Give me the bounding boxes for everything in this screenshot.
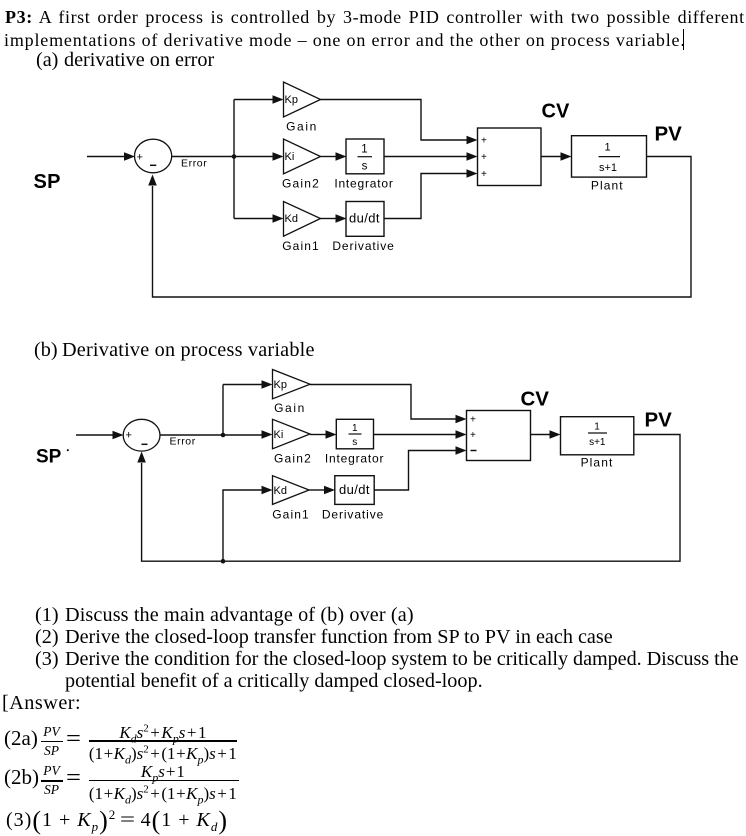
diagram a: plant block [572,136,647,177]
svg-text:Integrator: Integrator [325,451,384,465]
diagram b: Kd to derivative wire [309,489,324,491]
equation (2b) PV/SP bar [41,780,63,781]
diagram b: derivative block [335,476,374,505]
equation (2a) PV/SP numerator [40,725,63,739]
svg-text:1: 1 [594,422,600,433]
diagram a: derivative block [346,202,384,237]
diagram b: arrowhead into sum block input 1 [456,415,467,424]
diagram a: branch to Kd [234,218,273,220]
diagram b: minus sign in circle [142,443,148,445]
diagram a: branch to Kp [234,99,273,101]
svg-text:Gain1: Gain1 [272,508,310,522]
diagram b: arrowhead into sum block input 3 [456,446,467,455]
svg-text:Gain2: Gain2 [282,176,320,190]
diagram b: gain Kd triangle [273,476,310,505]
equation (3) [6,808,228,834]
diagram b: SP input wire [76,434,114,436]
svg-text:Kd: Kd [285,213,298,225]
svg-text:s: s [362,161,368,173]
svg-text:CV: CV [521,388,550,411]
diagram b: plant fraction bar [588,432,607,434]
svg-text:Kd: Kd [274,485,287,497]
equation (2b) fraction bar [89,780,239,781]
svg-text:Gain: Gain [274,401,306,415]
diagram b: arrowhead into sum block input 2 [456,430,467,439]
diagram a: arrowhead into integrator [336,152,347,161]
svg-text:Plant: Plant [591,179,624,193]
text cursor bar [683,29,685,50]
diagram a: plant fraction bar [599,156,621,158]
question list [35,605,59,625]
svg-text:Gain1: Gain1 [282,239,320,253]
equation (2b) equals [66,766,81,790]
diagram b: plant block [561,417,634,455]
diagram a: Kd to derivative wire [321,218,337,220]
svg-text:CV: CV [542,101,570,123]
diagram a: arrowhead into sum circle [124,152,135,161]
diagram b: junction dot on error wire [221,433,226,438]
svg-text:Error: Error [181,158,207,170]
paragraph line 1 [5,8,745,26]
item (a) label [36,50,58,70]
svg-text:s+1: s+1 [599,162,617,174]
svg-text:1: 1 [352,423,358,434]
equation (2b) label [4,767,39,788]
equation (2a) label [4,728,38,749]
diagram b: integrator fraction bar [349,433,362,435]
diagram b: summing junction circle [123,419,160,451]
diagram b: arrowhead into sum circle [113,431,124,440]
equation (2a) PV/SP denominator [40,744,63,758]
svg-text:PV: PV [645,409,673,432]
svg-text:Plant: Plant [581,456,614,470]
equation (2a) PV/SP bar [41,741,63,742]
diagram a: arrowhead into Kp [273,95,284,104]
diagram a: integrator block [346,139,384,174]
diagram a: Ki to integrator wire [321,156,337,158]
svg-text:Kp: Kp [274,379,287,391]
diagram a: arrowhead into sum block input 1 [467,136,478,145]
svg-text:du/dt: du/dt [339,482,370,497]
diagram b: Kp output wire [310,385,456,420]
diagram a: integrator fraction bar [358,156,373,158]
diagram b: Ki to integrator wire [310,434,326,436]
diagram a: gain Kp triangle [284,82,321,117]
svg-text:Gain: Gain [286,120,318,134]
diagram b: sum block sign 3 minus [471,450,477,452]
diagram b: integrator block [336,419,373,449]
diagram b: branch vertical to Kp [222,385,224,436]
svg-text:+: + [470,430,476,441]
equation (2b) PV/SP denominator [40,783,63,797]
diagram b: arrowhead into derivative [324,486,335,495]
diagram b: junction dot on feedback wire [221,559,226,564]
diagram a: branch vertical [233,100,235,219]
svg-text:Error: Error [170,436,196,448]
diagram a: derivative output wire [384,174,467,219]
diagram a: arrowhead into Kd [273,214,284,223]
equation (2a) fraction denominator [89,745,237,762]
diagram a: arrowhead into plant [561,152,572,161]
diagram a: gain Kd triangle [284,202,321,237]
diagram a: sum block [478,128,542,186]
svg-text:1: 1 [604,142,610,154]
svg-text:Derivative: Derivative [332,239,394,253]
svg-text:+: + [481,152,487,163]
diagram a: feedback wire [153,157,692,298]
svg-text:Gain2: Gain2 [274,451,312,465]
diagram a: summing junction circle [135,139,172,173]
svg-text:Integrator: Integrator [334,176,393,190]
diagram b: arrowhead into Kp [262,380,273,389]
diagram a: arrowhead feedback into sum circle [148,175,157,186]
diagram a: integrator output wire [384,156,467,158]
svg-text:SP: SP [34,171,61,193]
diagram b: arrowhead feedback into sum circle [137,452,146,463]
diagram b: derivative output wire [374,451,456,491]
diagram b: arrowhead into plant [550,430,561,439]
svg-text:PV: PV [655,123,683,146]
svg-text:+: + [481,136,487,147]
diagram b: arrowhead into Ki [262,430,273,439]
svg-text:s: s [352,437,357,448]
svg-text:1: 1 [361,144,367,156]
diagram b: branch to Kp horizontal [223,384,262,386]
diagram a: junction dot on error wire [232,154,237,159]
diagram b: gain Ki triangle [273,419,311,449]
equation (2a) equals [66,727,81,751]
equation (2a) fraction bar [89,740,238,741]
diagram a: Kp output wire [321,100,468,141]
diagram b: feedback wire [142,435,680,562]
diagram a: SP input wire [87,156,125,158]
diagram a: minus sign in circle [150,164,156,166]
paragraph line 2 [4,31,686,49]
svg-text:+: + [126,430,132,442]
equation (2a) fraction numerator [89,724,237,741]
diagram b: integrator output wire [374,434,457,436]
diagram a: arrowhead into sum block input 2 [467,152,478,161]
svg-text:Kp: Kp [285,94,298,106]
diagram a: arrowhead into sum block input 3 [467,169,478,178]
svg-text:Derivative: Derivative [322,508,384,522]
diagram a: sum to plant wire [541,156,561,158]
diagram a: error wire to Ki [172,156,273,158]
diagram a: gain Ki triangle [284,139,321,174]
diagram a: arrowhead into derivative [336,214,347,223]
diagram b: sum to plant wire [531,434,551,436]
svg-text:+: + [481,169,487,180]
svg-text:+: + [137,152,143,164]
equation (2b) fraction denominator [89,785,237,802]
diagram a: arrowhead into Ki [273,152,284,161]
diagram b: arrowhead into integrator [326,430,337,439]
svg-text:du/dt: du/dt [349,211,380,226]
equation (2b) PV/SP numerator [40,764,63,778]
diagram b: arrowhead into Kd [262,486,273,495]
item (b) label [34,340,58,360]
svg-text:SP: SP [36,447,62,468]
svg-text:+: + [470,415,476,426]
diagram b: derivative tap vertical from feedback [223,490,262,561]
diagram b: error wire to Ki [160,434,262,436]
equation (2b) fraction numerator [89,763,237,780]
svg-text:s+1: s+1 [589,437,606,448]
diagram b: sum block [467,411,531,461]
diagram b: gain Kp triangle [273,370,311,399]
svg-text:Ki: Ki [274,429,284,441]
diagram b: stray dot after SP [67,449,69,451]
svg-text:Ki: Ki [285,151,295,163]
